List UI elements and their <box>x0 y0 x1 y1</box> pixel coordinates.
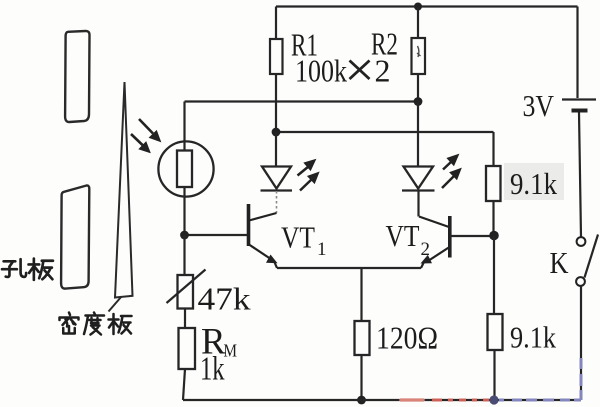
R2 bottom lead wire <box>417 74 419 101</box>
top rail wire <box>276 5 578 7</box>
upper perforated board (孔板) <box>65 31 89 122</box>
LED2 emission arrow 1 <box>443 155 459 170</box>
resistor R1 <box>270 39 283 74</box>
LED2 cathode lead wire <box>417 191 419 217</box>
label 孔板 <box>2 259 53 280</box>
LED2 emission arrow 2 <box>442 169 461 189</box>
9.1k upper bottom lead wire <box>492 201 494 236</box>
switch lower wire <box>580 286 582 400</box>
VT1 base wire <box>185 234 248 236</box>
9.1k lower bottom lead wire <box>493 350 495 400</box>
light arrow 1 into photoresistor <box>139 119 161 142</box>
svg-text:120Ω: 120Ω <box>376 320 438 356</box>
multiply sign <box>350 61 370 80</box>
transistor VT2 <box>419 216 450 268</box>
svg-text:2: 2 <box>421 239 431 260</box>
R2 top lead wire <box>417 7 419 39</box>
LED1 top lead wire <box>275 132 277 167</box>
svg-text:3V: 3V <box>523 88 555 123</box>
9.1k upper top lead wire <box>492 132 494 166</box>
label 密度板 <box>60 313 132 335</box>
47k to RM lead wire <box>184 309 186 329</box>
R1 top lead wire <box>275 7 277 40</box>
VT2 base wire <box>450 235 494 237</box>
resistor 9.1k upper <box>486 166 501 201</box>
LED1 emission arrow 1 <box>298 160 316 176</box>
svg-text:K: K <box>550 245 570 280</box>
R1 bottom lead wire <box>275 74 277 132</box>
svg-text:M: M <box>224 341 238 361</box>
svg-text:47k: 47k <box>198 281 251 317</box>
47k adjust diagonal <box>167 270 206 304</box>
47k top lead wire <box>183 235 185 275</box>
switch K lower contact <box>576 277 585 286</box>
svg-text:9.1k: 9.1k <box>510 320 556 355</box>
battery top wire <box>576 7 578 99</box>
rail2 wire (R1 bottom to 9.1k) <box>276 131 494 133</box>
svg-text:VT: VT <box>281 220 315 255</box>
pointer line to 密度板 label <box>109 297 122 312</box>
rail1 wire (R2 bottom to photoresistor) <box>185 100 419 102</box>
battery 3V short plate <box>572 109 588 113</box>
node VT1 base / photoresistor / 47k <box>180 231 189 240</box>
light arrow 2 into photoresistor <box>131 134 150 153</box>
battery 3V long plate <box>562 98 596 100</box>
svg-text:1: 1 <box>317 239 327 260</box>
resistor 47k (adjustable) <box>178 275 194 309</box>
lower perforated board (孔板) <box>61 185 89 288</box>
LED2 top lead wire <box>417 102 419 167</box>
photoresistor body <box>177 151 192 188</box>
node VT2 base / 9.1k junction <box>489 231 499 241</box>
density wedge board (密度板) <box>115 82 133 298</box>
svg-text:9.1k: 9.1k <box>510 166 557 201</box>
bottom rail red highlighter dashes <box>400 399 489 402</box>
wire blue highlighter vertical <box>580 358 583 400</box>
node 120ohm / bottom rail <box>357 396 366 405</box>
node rail1/R2 <box>414 97 423 106</box>
switch K upper contact <box>577 237 586 246</box>
photoresistor lead bottom <box>183 187 185 235</box>
bottom rail blue highlighter dashes <box>499 399 581 402</box>
R2 inner scan mark <box>417 46 421 57</box>
resistor 120ohm <box>355 321 370 355</box>
emitter rail wire <box>277 267 421 269</box>
svg-text:2: 2 <box>375 53 391 89</box>
bottom rail wire <box>183 399 581 401</box>
photoresistor circle <box>158 141 213 196</box>
scan artifact gray patch <box>504 163 564 200</box>
svg-text:1k: 1k <box>200 351 225 388</box>
LED1 cathode to VT1 collector (faint) <box>276 191 278 213</box>
switch K blade <box>585 235 599 278</box>
node 9.1k / bottom rail (blue) <box>489 395 498 404</box>
LED1 emission arrow 2 <box>300 172 319 190</box>
resistor R2 <box>412 38 426 74</box>
svg-text:VT: VT <box>386 218 420 253</box>
svg-text:100k: 100k <box>295 53 347 89</box>
photoresistor lead top <box>183 102 185 152</box>
resistor RM <box>179 328 196 369</box>
node rail2/R1 <box>272 128 281 137</box>
9.1k column wire <box>493 236 495 315</box>
LED2 <box>402 167 435 191</box>
LED1 <box>261 167 293 191</box>
120ohm top lead wire <box>360 268 362 321</box>
battery to switch wire <box>579 113 581 238</box>
node top rail R2 <box>414 3 422 11</box>
120ohm bottom lead wire <box>360 355 362 400</box>
transistor VT1 <box>249 204 278 268</box>
resistor 9.1k lower <box>488 314 503 350</box>
RM bottom lead wire <box>183 369 185 400</box>
